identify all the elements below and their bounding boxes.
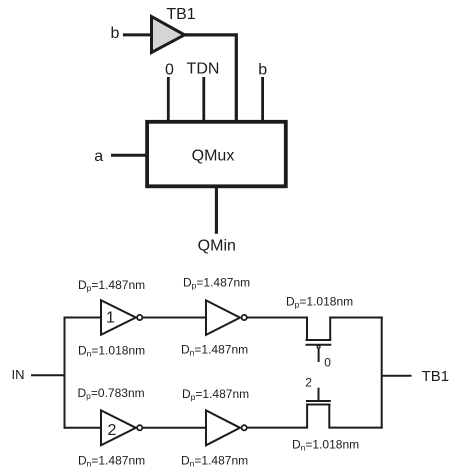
wire branch to inverter 1 [65, 317, 104, 319]
wire transistor 0 to output bus [329, 317, 382, 319]
wire TB1 output stub [382, 375, 412, 377]
svg-text:QMux: QMux [192, 147, 235, 164]
wire b input stub [261, 77, 264, 121]
svg-text:TB1: TB1 [166, 6, 195, 23]
svg-text:2: 2 [305, 375, 312, 389]
wire TDN input stub [202, 77, 205, 121]
mux QMux box [147, 122, 286, 187]
wire inverter 2 to stage 2 [143, 427, 207, 429]
svg-text:1: 1 [106, 309, 115, 326]
svg-text:TDN: TDN [187, 61, 220, 78]
inverter (row 2 stage 2) [206, 410, 240, 445]
wire IN input [31, 374, 66, 376]
svg-text:TB1: TB1 [422, 368, 450, 385]
svg-text:b: b [111, 25, 120, 42]
svg-text:2: 2 [107, 422, 116, 439]
svg-text:IN: IN [12, 367, 25, 382]
bubble inverter 1 [137, 315, 142, 320]
wire stage 2 to transistor 0 [247, 317, 308, 319]
wire inverter 1 to stage 2 [143, 317, 207, 319]
bubble inverter 2 [137, 425, 142, 430]
wire branch to inverter 2 [65, 427, 104, 429]
svg-text:0: 0 [165, 61, 174, 78]
wire input branch vertical [64, 317, 66, 429]
svg-text:a: a [94, 148, 103, 165]
transistor 2 (NMOS pass transistor) [306, 388, 331, 429]
svg-text:0: 0 [324, 356, 331, 370]
wire b to buffer [123, 33, 152, 36]
wire stage 2 to transistor 2 [247, 427, 308, 429]
inverter 1 [101, 300, 136, 335]
wire transistor 2 to output bus [329, 427, 382, 429]
inverter 2 [101, 410, 136, 445]
buffer TB1 [152, 17, 185, 53]
wire a input [111, 154, 147, 157]
svg-text:QMin: QMin [198, 238, 236, 255]
svg-text:b: b [258, 61, 267, 78]
wire 0 input stub [167, 77, 170, 121]
inverter (row 1 stage 2) [206, 300, 240, 335]
wire output bus vertical [381, 317, 383, 429]
bubble (row 2 stage 2) [242, 425, 247, 430]
transistor 0 (PMOS pass transistor) [306, 317, 332, 363]
wire QMin output [215, 187, 218, 234]
wire buffer output (right then down to mux) [183, 35, 236, 121]
bubble (row 1 stage 2) [242, 315, 247, 320]
